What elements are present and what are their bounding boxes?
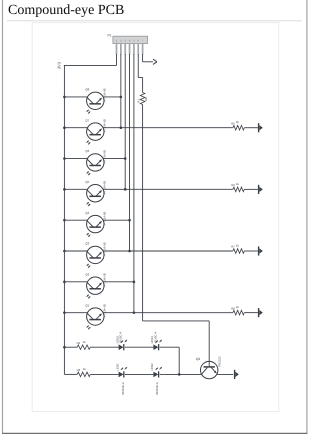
resistor R2 — [77, 340, 91, 350]
svg-text:Q8: Q8 — [85, 88, 89, 92]
wire Q9 emitter to ground — [217, 373, 233, 375]
ground — [259, 185, 263, 194]
wire row A from rail — [64, 346, 77, 348]
node rail junction Q7 — [63, 126, 66, 129]
node junction rows A/B — [178, 373, 181, 376]
node rail junction Q5 — [63, 188, 66, 191]
node junction row Q1 — [133, 311, 136, 314]
phototransistor Q4 PT334-6B — [85, 211, 106, 237]
phototransistor Q6 PT334-6B — [85, 149, 106, 175]
wire rail to Q5 collector — [64, 188, 87, 190]
phototransistor Q7 PT334-6B — [85, 118, 106, 144]
wire rail to Q7 collector — [64, 127, 87, 129]
svg-text:R8: R8 — [231, 306, 235, 310]
resistor R8 — [231, 305, 244, 315]
node rail junction Q4 — [63, 219, 66, 222]
svg-text:PT334-6B: PT334-6B — [102, 273, 106, 286]
wire Q4 emitter to pin column — [103, 219, 130, 221]
wire LED3 to LED4 — [125, 346, 153, 348]
svg-text:R7: R7 — [231, 245, 235, 249]
svg-text:PT334-6B: PT334-6B — [102, 304, 106, 317]
resistor R1 — [136, 93, 148, 105]
phototransistor Q5 PT334-6B — [85, 180, 106, 206]
LED3 WU2C-A — [115, 332, 127, 351]
wire row Q5 emitter — [103, 188, 258, 190]
svg-text:3V3: 3V3 — [56, 61, 61, 69]
node junction emitter Q2 — [133, 281, 136, 284]
node junction row Q3 — [128, 250, 131, 253]
wire R3 to LED1 — [90, 373, 118, 375]
svg-text:PN2222: PN2222 — [218, 356, 222, 367]
svg-text:LED2: LED2 — [150, 363, 154, 371]
svg-text:PT334-6B: PT334-6B — [102, 119, 106, 132]
wire rail to Q3 collector — [64, 250, 87, 252]
wire pin7 out — [143, 54, 153, 62]
wire rail to Q8 collector — [64, 96, 87, 98]
svg-text:PT334-6B: PT334-6B — [102, 212, 106, 225]
svg-text:R3: R3 — [77, 368, 81, 372]
node 3V3 power label — [56, 61, 61, 69]
node rail junction LED row A — [63, 346, 66, 349]
LED1 IR333C-A — [115, 363, 127, 395]
node rail junction Q2 — [63, 281, 66, 284]
node rail junction Q8 — [63, 96, 66, 99]
wire pin4 column — [129, 54, 131, 251]
svg-text:PT334-6B: PT334-6B — [102, 150, 106, 163]
resistor R6 — [231, 182, 244, 192]
svg-text:R1: R1 — [136, 99, 140, 103]
wire Q6 emitter to pin column — [103, 158, 125, 160]
ground — [259, 123, 263, 132]
node rail junction Q6 — [63, 157, 66, 160]
wire Q2 emitter to pin column — [103, 281, 134, 283]
wire row A down to row B — [160, 347, 180, 374]
wire LED2 to Q9 collector — [160, 373, 202, 375]
svg-text:PT334-6B: PT334-6B — [102, 242, 106, 255]
node output arrow — [153, 59, 157, 64]
svg-text:WU2C-A: WU2C-A — [153, 332, 157, 343]
svg-text:Q2: Q2 — [85, 273, 89, 277]
transistor Q9 PN2222 — [196, 356, 222, 379]
resistor R3 — [77, 367, 91, 377]
svg-text:R5: R5 — [231, 121, 235, 125]
resistor R5 — [231, 120, 244, 130]
phototransistor Q2 PT334-6B — [85, 273, 106, 299]
svg-text:P1: P1 — [107, 34, 111, 38]
phototransistor Q1 PT334-6B — [85, 303, 106, 329]
wire pin2 column — [120, 54, 122, 128]
svg-text:Compound-eye PCB: Compound-eye PCB — [8, 3, 124, 18]
svg-text:R6: R6 — [231, 183, 235, 187]
wire Q8 emitter to pin column — [103, 96, 121, 98]
node junction emitter Q6 — [124, 157, 127, 160]
LED4 WU2C-A — [150, 332, 162, 351]
node junction row Q7 — [120, 126, 123, 129]
node rail junction Q1 — [63, 311, 66, 314]
wire R1 to Q9 base — [143, 105, 210, 367]
ground — [259, 308, 263, 317]
wire pin3 column — [124, 54, 126, 189]
wire rail to Q4 collector — [64, 219, 87, 221]
wire row B from rail — [64, 373, 77, 375]
svg-text:IR333C-A: IR333C-A — [155, 382, 159, 395]
wire row Q7 emitter — [103, 127, 258, 129]
svg-text:Q5: Q5 — [85, 180, 89, 184]
wire row Q1 emitter — [103, 312, 258, 314]
connector P1 — [107, 34, 147, 55]
connector pin numbers 1-7 — [116, 40, 144, 43]
wire rail to Q2 collector — [64, 281, 87, 283]
phototransistor Q3 PT334-6B — [85, 242, 106, 268]
svg-text:Q4: Q4 — [85, 211, 89, 215]
wire rail to Q6 collector — [64, 158, 87, 160]
svg-text:PT334-6B: PT334-6B — [102, 88, 106, 101]
LED2 IR333C-A — [150, 363, 162, 395]
svg-text:PT334-6B: PT334-6B — [102, 181, 106, 194]
svg-text:Q1: Q1 — [85, 303, 89, 307]
svg-text:R2: R2 — [77, 341, 81, 345]
svg-text:WU2C-A: WU2C-A — [119, 332, 123, 343]
wire row Q3 emitter — [103, 250, 258, 252]
node rail junction Q3 — [63, 250, 66, 253]
node junction emitter Q8 — [120, 96, 123, 99]
wire pin6 to R1 — [138, 54, 142, 93]
ground — [259, 246, 263, 255]
node junction row Q5 — [124, 188, 127, 191]
svg-text:IR333C-A: IR333C-A — [121, 382, 125, 395]
svg-text:Q9: Q9 — [196, 357, 200, 361]
svg-text:Q6: Q6 — [85, 149, 89, 153]
wire pin1 to 3V3 rail — [64, 54, 117, 65]
wire pin5 column — [133, 54, 135, 313]
wire LED1 to LED2 — [125, 373, 153, 375]
svg-text:Q3: Q3 — [85, 242, 89, 246]
node junction emitter Q4 — [128, 219, 131, 222]
wire VCC left rail — [63, 65, 65, 374]
resistor R7 — [231, 244, 244, 254]
svg-text:Q7: Q7 — [85, 118, 89, 122]
phototransistor Q8 PT334-6B — [85, 88, 106, 114]
svg-text:LED1: LED1 — [115, 363, 119, 371]
wire rail to Q1 collector — [64, 312, 87, 314]
ground — [235, 370, 239, 379]
svg-text:10k: 10k — [144, 96, 148, 101]
wire R2 to LED3 — [90, 346, 118, 348]
